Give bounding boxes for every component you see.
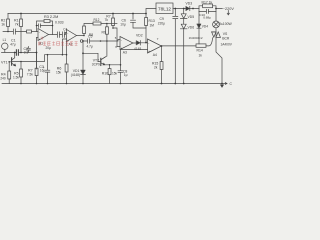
svg-text:1μ: 1μ [124, 73, 128, 77]
svg-text:+: + [39, 37, 41, 41]
svg-text:10μ: 10μ [120, 23, 126, 27]
svg-text:VT1: VT1 [1, 61, 8, 65]
svg-text:VD4: VD4 [202, 25, 208, 29]
svg-text:R14: R14 [197, 49, 203, 53]
svg-text:-: - [148, 41, 149, 45]
svg-text:2k: 2k [154, 66, 158, 70]
svg-text:1k: 1k [1, 23, 5, 27]
svg-text:R7: R7 [106, 15, 110, 19]
svg-text:78L12: 78L12 [158, 7, 171, 12]
svg-text:R13: R13 [149, 19, 155, 23]
svg-text:7k: 7k [15, 23, 19, 27]
svg-text:R17 1k: R17 1k [202, 0, 213, 4]
svg-text:4.7μ: 4.7μ [87, 45, 93, 49]
svg-text:1.5k: 1.5k [13, 76, 19, 80]
svg-text:4148: 4148 [134, 47, 141, 51]
svg-text:VD6: VD6 [188, 26, 195, 30]
svg-text:R16: R16 [102, 72, 108, 76]
svg-text:C10: C10 [199, 13, 205, 17]
svg-text:20μ: 20μ [46, 46, 52, 50]
svg-text:1M: 1M [150, 24, 155, 28]
svg-text:1k: 1k [199, 54, 203, 58]
svg-text:3CP9: 3CP9 [92, 63, 100, 67]
svg-text:VD2: VD2 [136, 34, 143, 38]
svg-text:15k: 15k [56, 71, 62, 75]
svg-text:VD5: VD5 [188, 15, 195, 19]
svg-text:~220V: ~220V [223, 7, 235, 11]
svg-text:7.5k: 7.5k [27, 72, 33, 76]
svg-text:0.033: 0.033 [55, 21, 64, 25]
svg-text:3.3: 3.3 [24, 50, 29, 54]
svg-text:+: + [67, 38, 69, 42]
svg-text:+: + [121, 46, 123, 50]
svg-text:1A400V: 1A400V [221, 43, 233, 47]
svg-text:-: - [39, 30, 40, 34]
svg-text:L1: L1 [3, 38, 7, 42]
svg-text:-: - [67, 31, 68, 35]
svg-text:A4: A4 [153, 53, 157, 57]
svg-text:VD3: VD3 [186, 2, 193, 6]
svg-text:+: + [43, 66, 45, 70]
svg-text:R≤100W: R≤100W [219, 22, 233, 26]
svg-text:7k: 7k [105, 18, 109, 22]
svg-text:R9: R9 [102, 31, 106, 35]
svg-text:VS: VS [223, 32, 228, 36]
svg-text:A3: A3 [123, 51, 127, 55]
svg-text:15k: 15k [112, 72, 118, 76]
svg-text:R12: R12 [94, 18, 100, 22]
svg-text:R3 2.2M: R3 2.2M [44, 15, 58, 19]
svg-text:-: - [121, 38, 122, 42]
svg-text:220μ: 220μ [158, 21, 165, 25]
svg-text:R8: R8 [89, 33, 93, 37]
svg-text:(4148): (4148) [71, 73, 80, 77]
svg-text:1N4004×2: 1N4004×2 [189, 36, 203, 40]
svg-text:+: + [148, 49, 150, 53]
svg-text:A2: A2 [69, 43, 73, 47]
svg-text:47μ: 47μ [10, 43, 16, 47]
svg-text:240: 240 [0, 77, 6, 81]
svg-text:BCR: BCR [222, 37, 230, 41]
